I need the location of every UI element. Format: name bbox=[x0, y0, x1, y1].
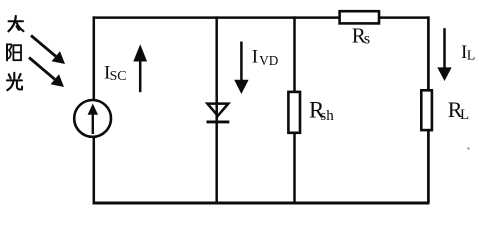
svg-text:SC: SC bbox=[110, 68, 127, 83]
svg-text:L: L bbox=[460, 107, 469, 123]
svg-text:sh: sh bbox=[320, 108, 334, 124]
svg-text:s: s bbox=[364, 31, 370, 48]
svg-text:L: L bbox=[467, 49, 476, 64]
svg-text:I: I bbox=[252, 47, 258, 68]
svg-text:VD: VD bbox=[259, 53, 278, 68]
